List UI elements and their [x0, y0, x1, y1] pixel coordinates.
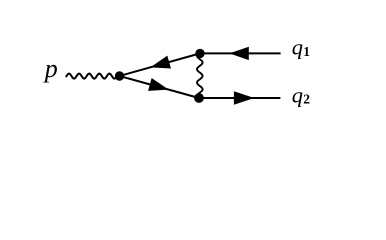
photon wavy line p — [66, 74, 117, 79]
vertex V2 (bottom right) — [194, 93, 204, 103]
svg-text:2: 2 — [303, 92, 310, 107]
quark line q2 (bottom, arrow outgoing) — [199, 97, 280, 99]
gluon wavy propagator between V1 and V2 — [197, 55, 203, 98]
vertex V0 (left) — [115, 71, 124, 80]
fermion line V1 to V0 (upper diagonal) — [120, 53, 201, 76]
arrow on q2 line (pointing right) — [234, 91, 254, 105]
arrow on lower diagonal (pointing to V2) — [148, 78, 169, 91]
svg-text:q: q — [292, 35, 303, 60]
svg-text:q: q — [292, 83, 303, 108]
fermion line V0 to V2 (lower diagonal) — [120, 76, 200, 98]
vertex V1 (top right) — [195, 49, 204, 58]
svg-text:1: 1 — [303, 44, 310, 59]
svg-text:p: p — [43, 54, 58, 83]
quark line q1 (top, arrow incoming) — [200, 52, 281, 54]
arrow on q1 line (pointing left) — [229, 47, 248, 60]
arrow on upper diagonal (pointing to V0) — [150, 56, 171, 69]
